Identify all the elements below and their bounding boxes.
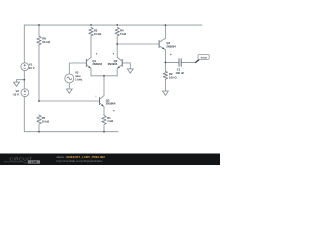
svg-text:5 kΩ: 5 kΩ [120, 32, 127, 36]
labels [12, 29, 184, 124]
svg-text:R3: R3 [94, 29, 98, 33]
wire R5 bottom lead [38, 125, 40, 132]
wire top rail [25, 24, 203, 26]
resistor R5 body [37, 115, 41, 124]
wire left rail lower [23, 97, 25, 132]
resistor R1 body [102, 115, 106, 124]
wire R2 to ground [164, 80, 166, 91]
junction R3 top rail [90, 24, 92, 26]
svg-text:R2: R2 [169, 72, 173, 76]
marker dot near Q2 [113, 53, 114, 54]
node B emitter tail junction [103, 75, 105, 77]
svg-text:2N3904: 2N3904 [92, 62, 102, 66]
svg-text:LAB: LAB [31, 160, 38, 164]
marker dot near R1 [113, 110, 114, 111]
resistor R3 body [89, 27, 93, 36]
ground (R2) [163, 91, 169, 95]
svg-text:2N3904: 2N3904 [106, 102, 116, 106]
svg-text:vout: vout [201, 55, 207, 59]
svg-text:sine: sine [75, 74, 81, 78]
svg-text:100 nF: 100 nF [176, 71, 185, 75]
resistor R4 body [115, 27, 119, 36]
wire node B to Q4 base [117, 43, 158, 45]
svg-text:100 Ω: 100 Ω [169, 76, 177, 80]
ground (V1/V2 midpoint) [14, 82, 20, 86]
wire Q2 base to ground [122, 63, 130, 69]
CircuitLab logo [4, 155, 106, 164]
wire emitters join [91, 75, 117, 77]
wire V1-V2 link [23, 71, 25, 89]
wire Q4 emitter to node [164, 50, 166, 63]
svg-text:10 kΩ: 10 kΩ [42, 120, 50, 124]
voltage source V2 [21, 89, 29, 97]
wire R6 bottom to node [38, 45, 40, 101]
wire C1 to vout flag [181, 61, 196, 63]
svg-text:60 kΩ: 60 kΩ [42, 40, 50, 44]
svg-text:2N3904: 2N3904 [166, 44, 176, 48]
svg-text:1 kHz: 1 kHz [75, 77, 83, 81]
node C Q2 collector to Q4 base [116, 43, 118, 45]
svg-text:C1: C1 [177, 68, 181, 72]
svg-text:1 kΩ: 1 kΩ [107, 119, 114, 123]
footer bar [0, 153, 220, 165]
wire left rail upper [23, 25, 25, 63]
wire node down to R2 [164, 62, 166, 71]
wire V3 bottom to ground [68, 83, 70, 89]
source V3 (sine) [65, 74, 74, 83]
wire R1 bottom lead [103, 126, 105, 132]
wire R6 top lead [38, 25, 40, 36]
node A divider tap R6-R5 [38, 100, 40, 102]
transistor Q1 [86, 57, 91, 68]
junction Q4 collector top rail [165, 24, 167, 26]
ground (Q2 base) [127, 69, 133, 73]
svg-text:R5: R5 [42, 116, 46, 120]
wire ground stub mid-left [17, 80, 25, 82]
svg-text:10 V: 10 V [29, 66, 35, 70]
wire R3 lead to Q1 collector [90, 37, 92, 58]
wire Q3 emitter to R1 [103, 107, 105, 116]
ground (V3) [66, 89, 72, 93]
wire Q4 collector up [164, 25, 166, 38]
resistor R6 body [37, 36, 41, 45]
transistor Q3 [100, 96, 105, 107]
marker dot near Q1 [96, 53, 97, 54]
transistor Q4 [159, 38, 165, 49]
wire node to C1 [165, 61, 179, 63]
node D Q4 emitter output [165, 62, 167, 64]
wire bottom rail [24, 131, 118, 133]
wire V3 top to Q1 base [69, 63, 86, 74]
junction R6 top rail [38, 24, 40, 26]
svg-text:2N3904: 2N3904 [108, 62, 118, 66]
transistor Q2 (mirrored) [117, 57, 122, 68]
svg-text:R6: R6 [42, 37, 46, 41]
svg-text:-10 V: -10 V [12, 93, 19, 97]
svg-text:10 kΩ: 10 kΩ [94, 32, 102, 36]
svg-text:R1: R1 [107, 116, 111, 120]
wire node to Q3 base [39, 100, 99, 102]
wire Q2 emitter down [116, 68, 118, 75]
junction R5 bottom rail [38, 131, 40, 133]
svg-text:R4: R4 [120, 29, 124, 33]
voltage source V1 [21, 63, 29, 71]
wire Q1 emitter down [90, 68, 92, 75]
junction V1-V2 midpoint ground tap [23, 79, 25, 81]
svg-text:http://circuitlab.com/c25pGj2n: http://circuitlab.com/c25pGj2n24abc [57, 159, 104, 163]
junction R4 top rail [116, 24, 118, 26]
wire R4 lead to Q2 collector [116, 37, 118, 58]
marker dot near Q3 [95, 96, 96, 97]
capacitor C1 plates [179, 58, 181, 66]
resistor R2 body [163, 71, 167, 79]
wire tail down to Q3 collector [103, 76, 105, 96]
junction R1 bottom rail [103, 131, 105, 133]
marker dot near Q4 [170, 54, 171, 55]
node flag vout [195, 55, 209, 64]
